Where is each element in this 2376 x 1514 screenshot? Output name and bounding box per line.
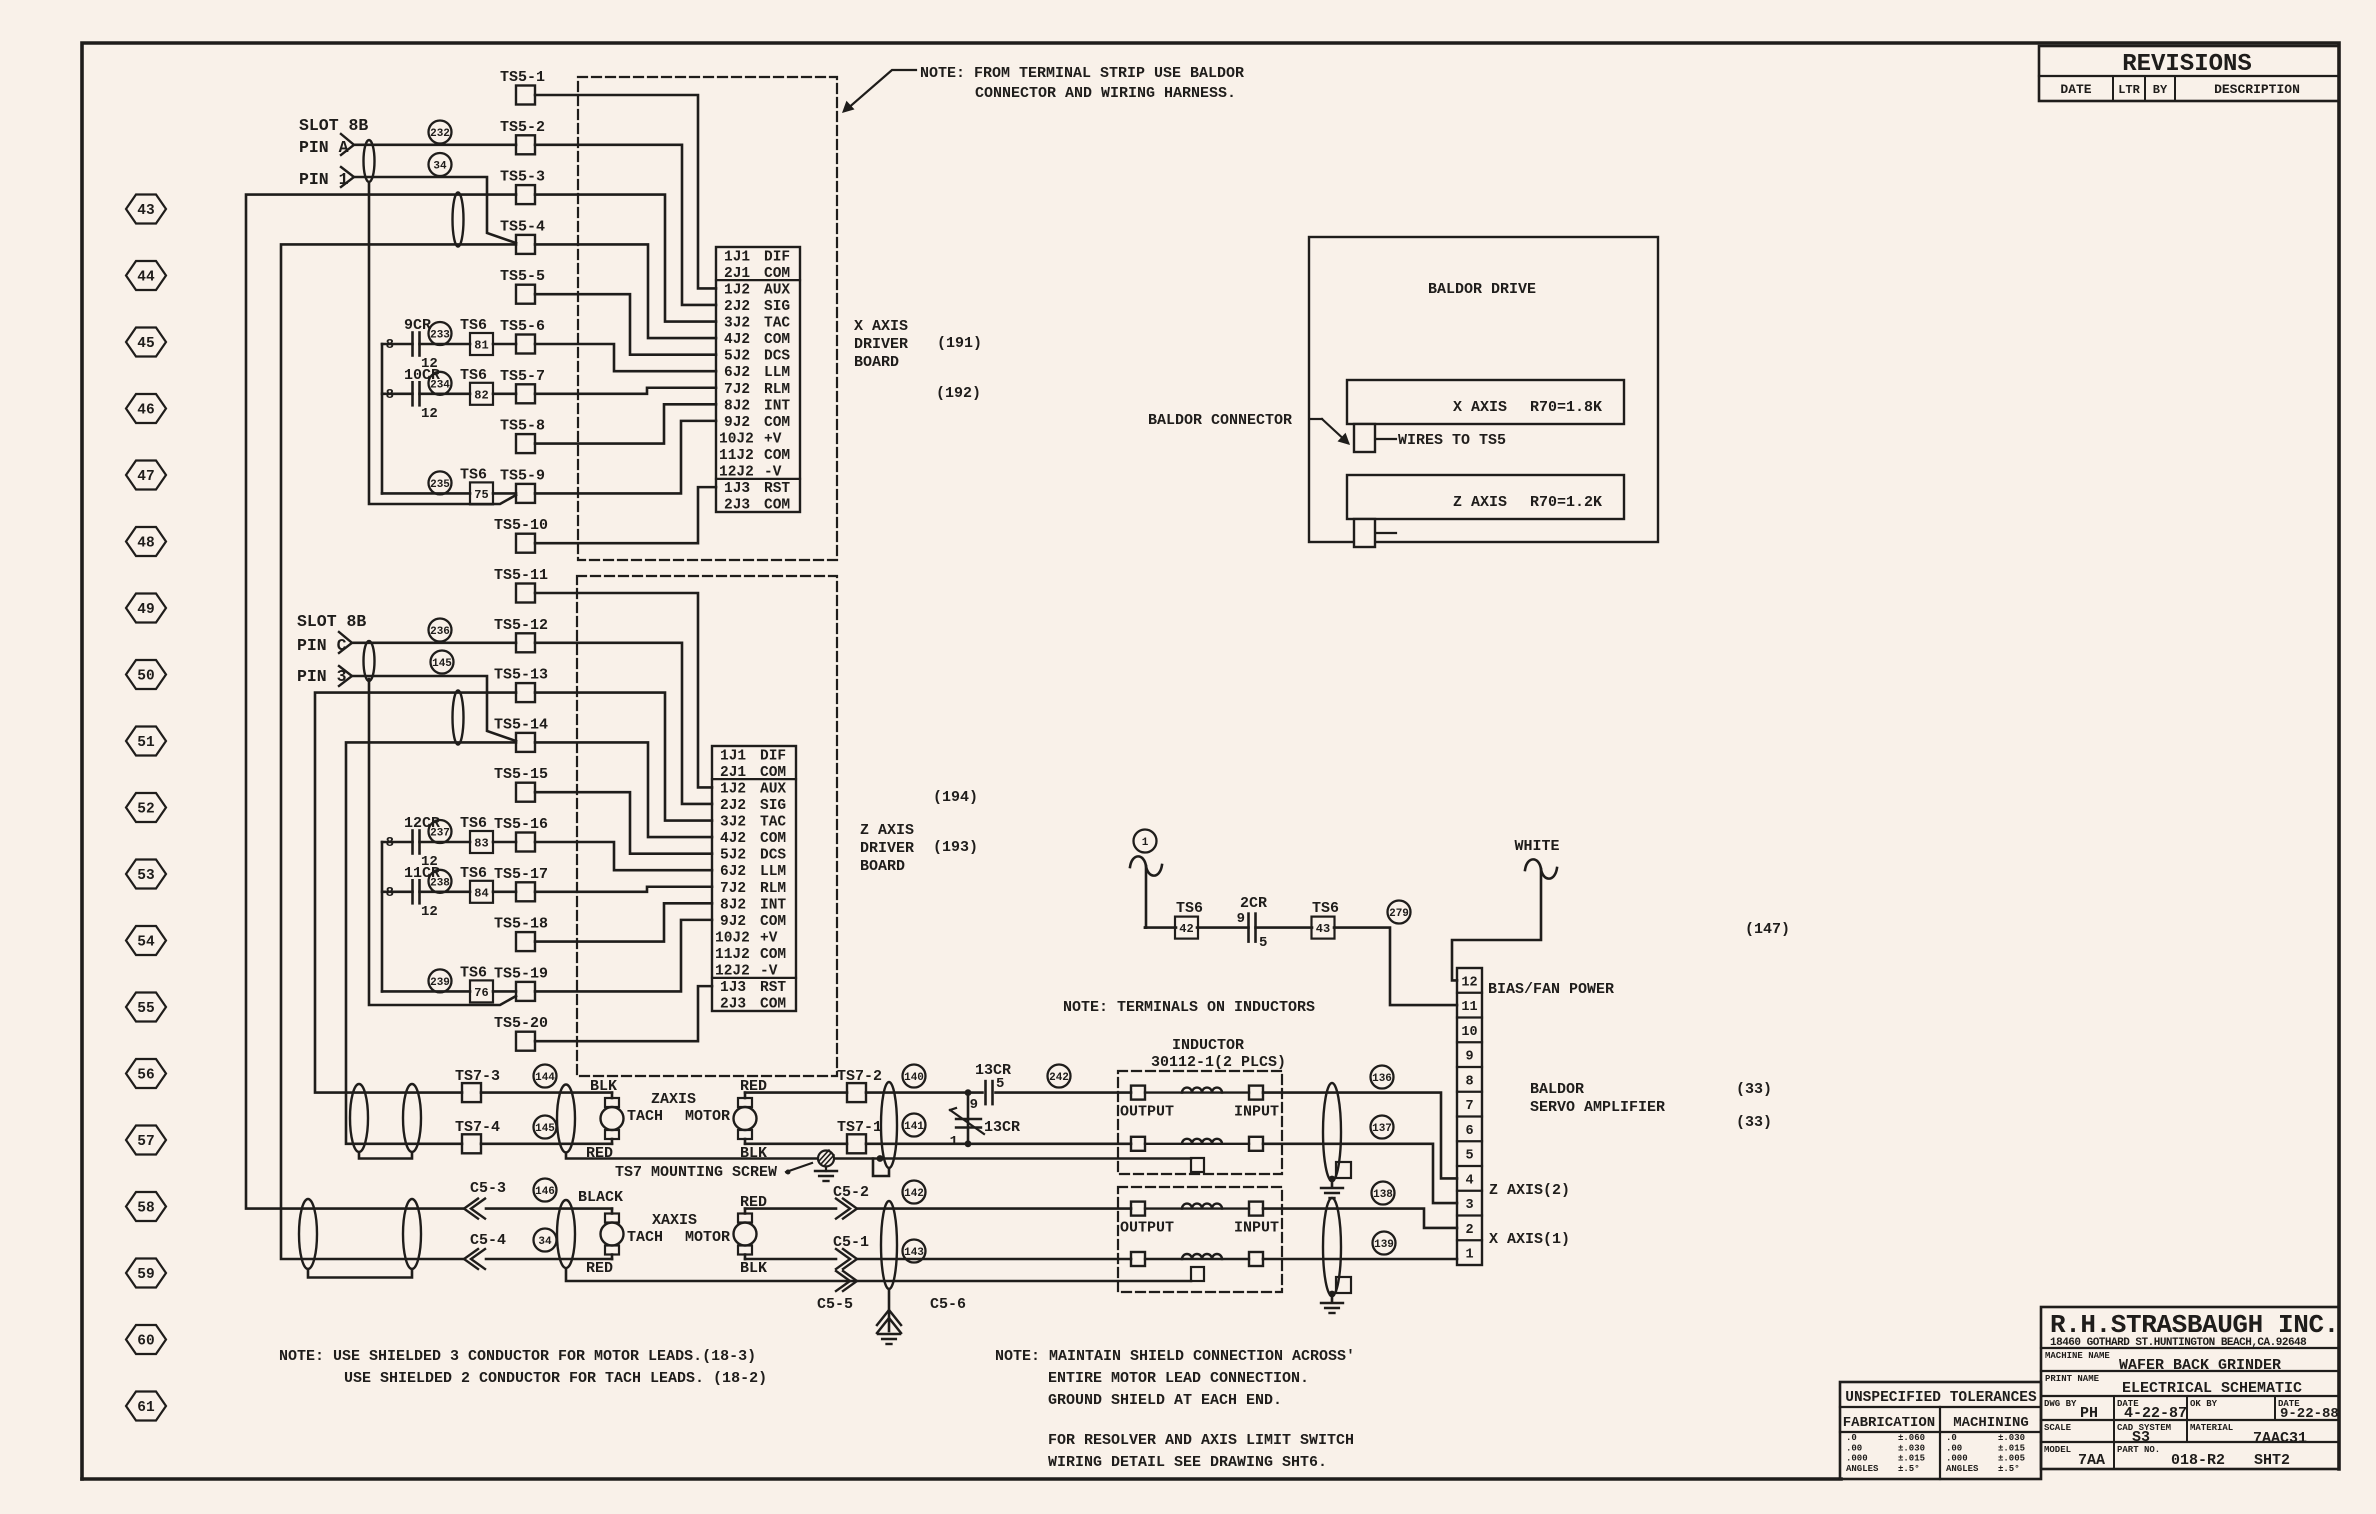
svg-text:9: 9 bbox=[1237, 911, 1245, 927]
svg-text:2CR: 2CR bbox=[1240, 895, 1267, 912]
shield left ovals C5 pair bbox=[299, 1199, 317, 1269]
svg-text:54: 54 bbox=[137, 935, 155, 951]
svg-text:±.5°: ±.5° bbox=[1898, 1464, 1920, 1474]
terminal TS5-4 bbox=[516, 235, 535, 254]
capacitor 10CR bbox=[382, 392, 413, 395]
cable shield oval bbox=[557, 1085, 575, 1153]
terminal TS5-1 bbox=[516, 86, 535, 105]
label wires to TS5 bbox=[1376, 438, 1396, 440]
svg-text:43: 43 bbox=[137, 203, 154, 219]
svg-text:82: 82 bbox=[474, 388, 488, 402]
svg-text:TS6: TS6 bbox=[460, 317, 487, 334]
svg-text:COM: COM bbox=[760, 947, 786, 963]
svg-text:AUX: AUX bbox=[760, 781, 786, 797]
terminal TS5-13 bbox=[516, 683, 535, 702]
svg-text:7AA: 7AA bbox=[2078, 1452, 2105, 1469]
svg-text:Z AXIS: Z AXIS bbox=[860, 822, 914, 839]
wire to TS6 box bbox=[382, 990, 470, 993]
svg-text:PART NO.: PART NO. bbox=[2117, 1445, 2160, 1455]
svg-text:(194): (194) bbox=[933, 789, 978, 806]
svg-text:.000: .000 bbox=[1846, 1454, 1868, 1464]
svg-text:5J2: 5J2 bbox=[720, 848, 746, 864]
inductor terminal squares and coil bbox=[1131, 1137, 1145, 1151]
svg-text:75: 75 bbox=[474, 488, 488, 502]
sheet line reference hexagon 54 bbox=[126, 926, 166, 955]
svg-text:8: 8 bbox=[386, 387, 394, 403]
svg-text:RLM: RLM bbox=[760, 881, 786, 897]
svg-text:COM: COM bbox=[760, 765, 786, 781]
Z AXIS R70 bar bbox=[1347, 475, 1624, 519]
wire number 139 bbox=[1373, 1232, 1396, 1255]
wire number 238 bbox=[429, 870, 452, 893]
svg-text:49: 49 bbox=[137, 602, 154, 618]
svg-text:30112-1(2 PLCS): 30112-1(2 PLCS) bbox=[1151, 1054, 1286, 1071]
svg-text:C5-2: C5-2 bbox=[833, 1184, 869, 1201]
svg-text:2: 2 bbox=[1465, 1223, 1473, 1238]
svg-text:TS5-16: TS5-16 bbox=[494, 816, 548, 833]
wire number 235 bbox=[429, 471, 452, 494]
inductor shield terminal square bbox=[1191, 1158, 1204, 1172]
svg-text:(192): (192) bbox=[936, 385, 981, 402]
wire number 232 bbox=[429, 121, 452, 144]
svg-text:TS6: TS6 bbox=[1176, 900, 1203, 917]
X axis motor bbox=[734, 1223, 757, 1246]
terminal TS5-19 bbox=[516, 982, 535, 1001]
svg-text:INT: INT bbox=[760, 897, 786, 913]
svg-text:46: 46 bbox=[137, 403, 154, 419]
wire number 233 bbox=[429, 322, 452, 345]
svg-text:TS5-15: TS5-15 bbox=[494, 766, 548, 783]
svg-text:TS5-2: TS5-2 bbox=[500, 119, 545, 136]
wire C5-2 to inductor2 row1 bbox=[858, 1207, 1131, 1210]
svg-text:TS5-4: TS5-4 bbox=[500, 218, 545, 235]
cable shield ellipse TS5-13/TS5-14 bbox=[453, 691, 464, 745]
svg-text:10: 10 bbox=[1461, 1025, 1477, 1040]
svg-text:56: 56 bbox=[137, 1068, 154, 1084]
svg-text:SLOT 8B: SLOT 8B bbox=[299, 116, 368, 135]
svg-text:-V: -V bbox=[760, 964, 778, 980]
svg-text:GROUND SHIELD AT EACH END.: GROUND SHIELD AT EACH END. bbox=[1048, 1392, 1282, 1409]
svg-text:BALDOR CONNECTOR: BALDOR CONNECTOR bbox=[1148, 412, 1292, 429]
wire number 34 bbox=[429, 153, 452, 176]
svg-text:234: 234 bbox=[430, 379, 450, 391]
svg-text:45: 45 bbox=[137, 336, 154, 352]
wire C5-3 to tach bbox=[486, 1207, 612, 1210]
svg-text:76: 76 bbox=[474, 986, 488, 1000]
svg-text:MODEL: MODEL bbox=[2044, 1445, 2071, 1455]
terminal TS5-16 bbox=[516, 833, 535, 852]
svg-text:RST: RST bbox=[764, 481, 790, 497]
svg-text:6J2: 6J2 bbox=[720, 864, 746, 880]
wire motor to TS7-2 bbox=[745, 1091, 847, 1094]
svg-text:RST: RST bbox=[760, 980, 786, 996]
svg-text:±.015: ±.015 bbox=[1898, 1454, 1925, 1464]
svg-text:ZAXIS: ZAXIS bbox=[651, 1091, 696, 1108]
svg-text:SCALE: SCALE bbox=[2044, 1423, 2072, 1433]
svg-text:144: 144 bbox=[535, 1072, 555, 1084]
svg-text:5: 5 bbox=[996, 1076, 1004, 1092]
svg-text:8J2: 8J2 bbox=[724, 398, 750, 414]
wire motor to TS7-1 bbox=[745, 1143, 847, 1146]
svg-text:4J2: 4J2 bbox=[724, 332, 750, 348]
inductor terminal squares and coil bbox=[1131, 1086, 1145, 1100]
svg-text:NOTE: USE SHIELDED 3 CONDUCTO: NOTE: USE SHIELDED 3 CONDUCTOR FOR MOTOR… bbox=[279, 1348, 756, 1365]
svg-text:+V: +V bbox=[760, 930, 778, 946]
svg-text:TS5-17: TS5-17 bbox=[494, 866, 548, 883]
junction dot bbox=[965, 1089, 972, 1096]
wire TS7-4 to tach bbox=[481, 1143, 612, 1146]
svg-text:PRINT NAME: PRINT NAME bbox=[2045, 1374, 2100, 1384]
wire TS5-13 to Z 3J2 bbox=[535, 693, 712, 821]
shield drain wire Z group bbox=[566, 1153, 1191, 1159]
sheet line reference hexagon 61 bbox=[126, 1392, 166, 1421]
svg-text:BALDOR: BALDOR bbox=[1530, 1081, 1584, 1098]
svg-text:9J2: 9J2 bbox=[724, 415, 750, 431]
svg-text:145: 145 bbox=[535, 1123, 555, 1135]
svg-text:1J2: 1J2 bbox=[724, 282, 750, 298]
cable shield ellipse PIN A/PIN 1 bbox=[364, 140, 375, 182]
svg-text:4J2: 4J2 bbox=[720, 831, 746, 847]
svg-text:DCS: DCS bbox=[764, 349, 790, 365]
svg-text:7: 7 bbox=[1465, 1099, 1473, 1114]
svg-text:(191): (191) bbox=[937, 335, 982, 352]
svg-text:2J1: 2J1 bbox=[720, 765, 746, 781]
svg-text:TS5-19: TS5-19 bbox=[494, 965, 548, 982]
svg-text:(33): (33) bbox=[1736, 1114, 1772, 1131]
svg-text:RLM: RLM bbox=[764, 382, 790, 398]
wire shield drain PIN A/1 to TS5-9 bbox=[369, 182, 516, 504]
svg-text:USE SHIELDED 2 CONDUCTOR FOR T: USE SHIELDED 2 CONDUCTOR FOR TACH LEADS.… bbox=[344, 1370, 767, 1387]
svg-text:2J1: 2J1 bbox=[724, 266, 750, 282]
svg-text:Z AXIS(2): Z AXIS(2) bbox=[1489, 1182, 1570, 1199]
sheet line reference hexagon 44 bbox=[126, 261, 166, 290]
BALDOR DRIVE enclosure bbox=[1309, 237, 1658, 542]
svg-text:INPUT: INPUT bbox=[1234, 1220, 1279, 1237]
svg-text:BLK: BLK bbox=[740, 1260, 767, 1277]
shield drain wire X group bbox=[566, 1269, 1191, 1282]
svg-text:NOTE: FROM TERMINAL STRIP USE: NOTE: FROM TERMINAL STRIP USE BALDOR bbox=[920, 65, 1244, 82]
svg-text:COM: COM bbox=[760, 914, 786, 930]
svg-text:COM: COM bbox=[764, 415, 790, 431]
wire shield drain PIN C/3 to TS5-19 bbox=[369, 679, 516, 1005]
wire TS5-13 / TS7-3 long run bbox=[315, 693, 516, 1093]
svg-text:233: 233 bbox=[430, 329, 450, 341]
svg-text:MACHINE NAME: MACHINE NAME bbox=[2045, 1351, 2110, 1361]
svg-text:TS5-1: TS5-1 bbox=[500, 69, 545, 86]
svg-text:TS5-14: TS5-14 bbox=[494, 716, 548, 733]
svg-text:11J2: 11J2 bbox=[719, 448, 754, 464]
sheet line reference hexagon 60 bbox=[126, 1325, 166, 1354]
svg-text:42: 42 bbox=[1179, 922, 1193, 936]
svg-text:.00: .00 bbox=[1846, 1443, 1862, 1453]
svg-text:136: 136 bbox=[1372, 1073, 1392, 1085]
wire TS5-14 / TS7-4 long run bbox=[346, 742, 516, 1143]
terminal TS5-20 bbox=[516, 1032, 535, 1051]
svg-text:BOARD: BOARD bbox=[854, 354, 899, 371]
dashed boundary Z axis driver board bbox=[577, 576, 837, 1076]
svg-text:COM: COM bbox=[760, 831, 786, 847]
svg-text:1J2: 1J2 bbox=[720, 781, 746, 797]
terminal TS5-15 bbox=[516, 783, 535, 802]
cable shield oval right bbox=[881, 1201, 897, 1289]
svg-text:DIF: DIF bbox=[760, 748, 786, 764]
svg-text:.000: .000 bbox=[1946, 1454, 1968, 1464]
svg-text:10J2: 10J2 bbox=[715, 930, 750, 946]
svg-text:TS5-11: TS5-11 bbox=[494, 567, 548, 584]
svg-text:9CR: 9CR bbox=[404, 317, 431, 334]
svg-text:146: 146 bbox=[535, 1186, 555, 1198]
svg-text:9J2: 9J2 bbox=[720, 914, 746, 930]
svg-text:TS5-3: TS5-3 bbox=[500, 169, 545, 186]
svg-text:BLACK: BLACK bbox=[578, 1189, 623, 1206]
svg-text:MOTOR: MOTOR bbox=[685, 1229, 730, 1246]
svg-text:2J3: 2J3 bbox=[720, 997, 746, 1013]
svg-text:TS6: TS6 bbox=[460, 367, 487, 384]
svg-text:7J2: 7J2 bbox=[720, 881, 746, 897]
wire TS7-3 to tach bbox=[481, 1091, 612, 1094]
wire node1 to TS6-42 bbox=[1145, 926, 1176, 929]
svg-text:12: 12 bbox=[421, 904, 438, 920]
svg-text:145: 145 bbox=[432, 658, 452, 670]
svg-text:AUX: AUX bbox=[764, 282, 790, 298]
baldor connector square X bbox=[1354, 424, 1375, 452]
svg-text:13CR: 13CR bbox=[975, 1062, 1011, 1079]
svg-text:INT: INT bbox=[764, 398, 790, 414]
title block R.H.STRASBAUGH INC. bbox=[2041, 1307, 2339, 1469]
baldor servo amplifier terminal strip 1-12 bbox=[1457, 968, 1482, 1265]
svg-text:SHT2: SHT2 bbox=[2254, 1452, 2290, 1469]
svg-text:COM: COM bbox=[764, 448, 790, 464]
svg-text:DRIVER: DRIVER bbox=[854, 336, 908, 353]
svg-text:PIN 3: PIN 3 bbox=[297, 667, 347, 686]
wire TS5-3 / C5-3 long run bbox=[246, 195, 516, 1209]
svg-text:1J1: 1J1 bbox=[724, 249, 750, 265]
svg-text:61: 61 bbox=[137, 1400, 155, 1416]
svg-text:DIF: DIF bbox=[764, 249, 790, 265]
wire TS5-3 to 3J2 bbox=[535, 195, 716, 322]
svg-text:4: 4 bbox=[1465, 1173, 1473, 1188]
terminal TS5-8 bbox=[516, 434, 535, 453]
svg-text:2J2: 2J2 bbox=[724, 299, 750, 315]
wire inductor2 row1 to terminal 2 bbox=[1263, 1209, 1457, 1228]
svg-text:XAXIS: XAXIS bbox=[652, 1212, 697, 1229]
svg-text:55: 55 bbox=[137, 1001, 154, 1017]
svg-text:143: 143 bbox=[904, 1247, 924, 1259]
svg-text:WIRING DETAIL SEE DRAWING SHT6: WIRING DETAIL SEE DRAWING SHT6. bbox=[1048, 1454, 1327, 1471]
wire TS5-7 to 7J2 bbox=[535, 388, 716, 394]
inductor dashed box bbox=[1118, 1187, 1282, 1292]
svg-text:BALDOR DRIVE: BALDOR DRIVE bbox=[1428, 281, 1536, 298]
svg-text:5: 5 bbox=[1259, 935, 1267, 951]
svg-text:239: 239 bbox=[430, 977, 450, 989]
svg-text:8J2: 8J2 bbox=[720, 897, 746, 913]
svg-text:X AXIS: X AXIS bbox=[854, 318, 908, 335]
sheet line reference hexagon 58 bbox=[126, 1192, 166, 1221]
wire TS5-1 to 1J2 bbox=[535, 95, 716, 288]
Z axis motor bbox=[734, 1107, 757, 1130]
svg-text:50: 50 bbox=[137, 669, 154, 685]
svg-text:TACH: TACH bbox=[627, 1108, 663, 1125]
svg-text:LTR: LTR bbox=[2118, 83, 2140, 97]
terminal TS5-14 bbox=[516, 733, 535, 752]
svg-text:242: 242 bbox=[1049, 1072, 1069, 1084]
wire TS5-20 to Z 1J3 bbox=[535, 986, 712, 1041]
svg-text:OUTPUT: OUTPUT bbox=[1120, 1104, 1174, 1121]
dashed boundary X axis driver board bbox=[578, 77, 837, 560]
svg-text:±.5°: ±.5° bbox=[1998, 1464, 2020, 1474]
svg-text:TS5-13: TS5-13 bbox=[494, 667, 548, 684]
svg-text:52: 52 bbox=[137, 802, 154, 818]
svg-text:TS5-9: TS5-9 bbox=[500, 467, 545, 484]
svg-text:12: 12 bbox=[1461, 975, 1477, 990]
capacitor 9CR bbox=[382, 343, 413, 346]
svg-text:±.030: ±.030 bbox=[1998, 1433, 2025, 1443]
svg-text:SERVO AMPLIFIER: SERVO AMPLIFIER bbox=[1530, 1099, 1665, 1116]
svg-text:138: 138 bbox=[1373, 1189, 1393, 1201]
wire number 142 bbox=[903, 1181, 926, 1204]
svg-text:TS5-5: TS5-5 bbox=[500, 268, 545, 285]
svg-text:11: 11 bbox=[1461, 1000, 1477, 1015]
svg-text:TS5-18: TS5-18 bbox=[494, 916, 548, 933]
svg-text:1J1: 1J1 bbox=[720, 748, 746, 764]
svg-text:SIG: SIG bbox=[760, 798, 786, 814]
wire number 145 bbox=[534, 1116, 557, 1139]
svg-text:141: 141 bbox=[904, 1121, 924, 1133]
wire inductor row2 to terminal 3 bbox=[1263, 1144, 1457, 1203]
wire TS5-16 to Z 6J2 bbox=[535, 842, 712, 870]
wire number 144 bbox=[534, 1065, 557, 1088]
svg-text:MOTOR: MOTOR bbox=[685, 1108, 730, 1125]
svg-text:-V: -V bbox=[764, 465, 782, 481]
wire number 146 bbox=[534, 1179, 557, 1202]
wire TS5-5 to 5J2 bbox=[535, 294, 716, 354]
svg-text:3J2: 3J2 bbox=[720, 815, 746, 831]
cable shield oval right bbox=[881, 1082, 897, 1168]
svg-text:COM: COM bbox=[760, 997, 786, 1013]
sheet line reference hexagon 47 bbox=[126, 461, 166, 490]
svg-text:5J2: 5J2 bbox=[724, 349, 750, 365]
sheet line reference hexagon 53 bbox=[126, 860, 166, 889]
wire number 236 bbox=[429, 619, 452, 642]
svg-text:137: 137 bbox=[1372, 1123, 1392, 1135]
wire TS5-4 / C5-4 long run bbox=[281, 244, 516, 1259]
svg-text:Z AXIS: Z AXIS bbox=[1453, 494, 1507, 511]
sheet line reference hexagon 56 bbox=[126, 1059, 166, 1088]
svg-text:ENTIRE MOTOR LEAD CONNECTION.: ENTIRE MOTOR LEAD CONNECTION. bbox=[1048, 1370, 1309, 1387]
terminal TS5-9 bbox=[516, 484, 535, 503]
node 1 off-page circle bbox=[1134, 830, 1157, 853]
svg-text:WHITE: WHITE bbox=[1514, 838, 1559, 855]
capacitor 11CR bbox=[382, 890, 413, 893]
wire 13CR to inductor bbox=[996, 1091, 1132, 1094]
svg-text:C5-5: C5-5 bbox=[817, 1296, 853, 1313]
wire TS7-2 to 13CR capacitor bbox=[866, 1091, 983, 1094]
svg-text:+V: +V bbox=[764, 431, 782, 447]
wire number 239 bbox=[429, 969, 452, 992]
svg-text:TS6: TS6 bbox=[460, 466, 487, 483]
wire TS7-1 to inductor row2 bbox=[866, 1143, 1131, 1146]
svg-text:34: 34 bbox=[433, 160, 447, 172]
wire number 143 bbox=[903, 1240, 926, 1263]
svg-text:34: 34 bbox=[538, 1236, 552, 1248]
inductor2 cable shield oval bbox=[1323, 1198, 1341, 1296]
svg-text:TAC: TAC bbox=[764, 316, 790, 332]
cable shield ellipse PIN C/PIN 3 bbox=[364, 641, 375, 681]
sheet line reference hexagon 49 bbox=[126, 594, 166, 623]
wire TS5-18 to Z 8J2 bbox=[535, 903, 712, 941]
wire TS5-6 to 6J2 bbox=[535, 344, 716, 371]
wire 2CR to TS6-43 bbox=[1256, 926, 1313, 929]
svg-text:.0: .0 bbox=[1846, 1433, 1857, 1443]
wire TS5-15 to Z 5J2 bbox=[535, 792, 712, 853]
svg-text:INDUCTOR: INDUCTOR bbox=[1172, 1037, 1244, 1054]
svg-text:DCS: DCS bbox=[760, 848, 786, 864]
svg-text:1J3: 1J3 bbox=[724, 481, 750, 497]
terminal TS5-10 bbox=[516, 534, 535, 553]
svg-text:RED: RED bbox=[586, 1260, 613, 1277]
svg-text:236: 236 bbox=[430, 626, 450, 638]
svg-text:TACH: TACH bbox=[627, 1229, 663, 1246]
wire PIN A to TS5-2 bbox=[354, 144, 516, 147]
svg-text:LLM: LLM bbox=[764, 365, 790, 381]
terminal TS5-11 bbox=[516, 584, 535, 603]
bus for CR group bbox=[381, 344, 384, 493]
svg-text:DESCRIPTION: DESCRIPTION bbox=[2214, 82, 2300, 97]
terminal TS5-6 bbox=[516, 335, 535, 354]
svg-text:OK BY: OK BY bbox=[2190, 1399, 2218, 1409]
svg-text:83: 83 bbox=[474, 837, 488, 851]
svg-text:NOTE: TERMINALS ON INDUCTORS: NOTE: TERMINALS ON INDUCTORS bbox=[1063, 999, 1315, 1016]
svg-text:44: 44 bbox=[137, 270, 155, 286]
junction dot shield bbox=[877, 1155, 884, 1162]
wire C5-1 to inductor2 row2 bbox=[858, 1258, 1131, 1261]
svg-text:48: 48 bbox=[137, 536, 154, 552]
svg-text:6: 6 bbox=[1465, 1124, 1473, 1139]
sheet line reference hexagon 43 bbox=[126, 195, 166, 224]
wire number 141 bbox=[903, 1114, 926, 1137]
svg-text:9: 9 bbox=[1465, 1050, 1473, 1065]
svg-text:(147): (147) bbox=[1745, 921, 1790, 938]
svg-text:R70=1.2K: R70=1.2K bbox=[1530, 494, 1602, 511]
svg-text:279: 279 bbox=[1389, 908, 1409, 920]
svg-text:TS5-10: TS5-10 bbox=[494, 517, 548, 534]
wire number 242 bbox=[1048, 1065, 1071, 1088]
wire PIN 1 to TS5-4 bbox=[354, 177, 516, 243]
svg-text:58: 58 bbox=[137, 1201, 154, 1217]
wire motor to C5-2 bbox=[745, 1207, 836, 1210]
contact 13CR normally closed bbox=[967, 1093, 970, 1144]
svg-text:OUTPUT: OUTPUT bbox=[1120, 1220, 1174, 1237]
wire C5-4 to tach bbox=[486, 1258, 612, 1261]
wire number 34 bbox=[534, 1229, 557, 1252]
svg-text:UNSPECIFIED TOLERANCES: UNSPECIFIED TOLERANCES bbox=[1845, 1390, 2037, 1406]
X AXIS R70 bar bbox=[1347, 380, 1624, 424]
wire TS5-17 to Z 7J2 bbox=[535, 887, 712, 892]
wire to TS6 box bbox=[382, 492, 470, 495]
connector J1/J2/J3 X axis driver board bbox=[716, 247, 800, 512]
svg-text:S3: S3 bbox=[2132, 1429, 2150, 1446]
wire TS5-9 to 9J2 bbox=[535, 421, 716, 494]
svg-text:60: 60 bbox=[137, 1334, 154, 1350]
wire TS6-42 to 2CR bbox=[1197, 926, 1249, 929]
svg-text:5: 5 bbox=[1465, 1149, 1473, 1164]
wire number 234 bbox=[429, 372, 452, 395]
svg-text:13CR: 13CR bbox=[984, 1119, 1020, 1136]
svg-text:BOARD: BOARD bbox=[860, 858, 905, 875]
svg-text:DRIVER: DRIVER bbox=[860, 840, 914, 857]
svg-text:R70=1.8K: R70=1.8K bbox=[1530, 399, 1602, 416]
svg-text:BY: BY bbox=[2153, 83, 2168, 97]
